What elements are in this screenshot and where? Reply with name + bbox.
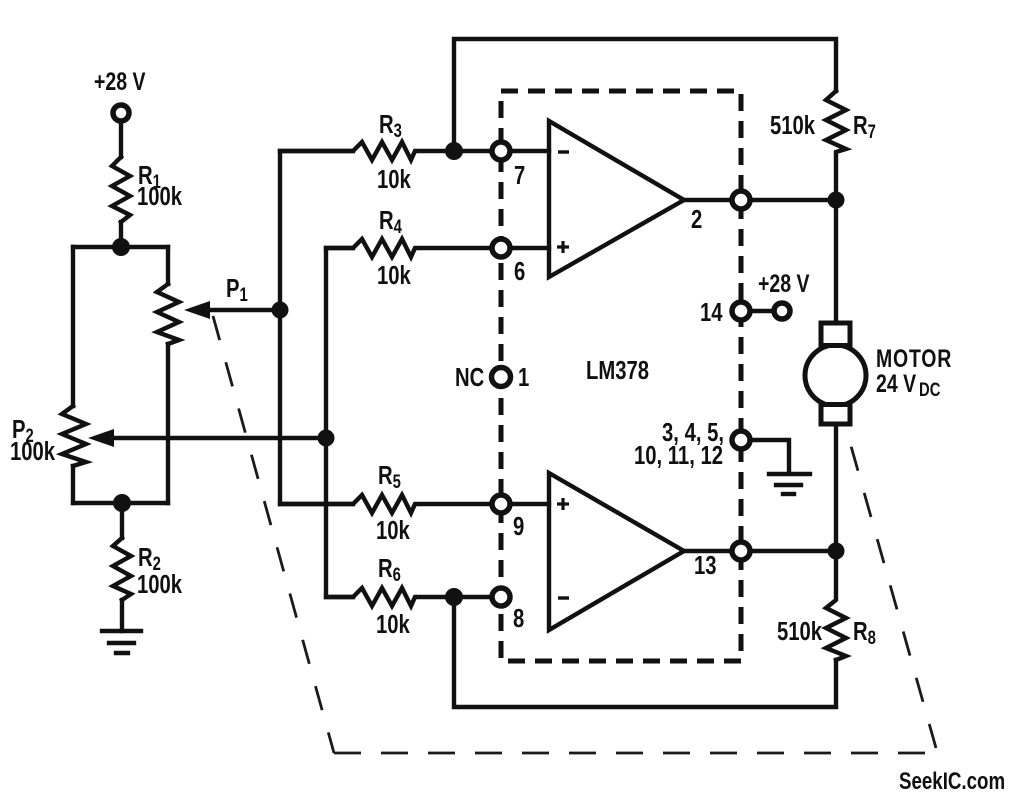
node junction P2 wiper to bus bbox=[318, 430, 335, 447]
wire pot box left upper bbox=[71, 247, 75, 406]
pin 6 bbox=[492, 239, 525, 286]
pin 13 bbox=[694, 542, 750, 580]
svg-text:MOTOR: MOTOR bbox=[876, 345, 952, 373]
wire op-amp2 output to node bbox=[684, 549, 836, 553]
wire node to motor bbox=[834, 200, 838, 323]
resistor R7 510k bbox=[770, 91, 876, 200]
wire motor to node B bbox=[834, 424, 838, 551]
wire left vertical bus R3 to R5 bbox=[280, 151, 353, 504]
svg-text:DC: DC bbox=[919, 379, 940, 400]
wire bottom feedback loop from node B to R8 bbox=[454, 597, 836, 707]
wire pot box bottom bbox=[73, 501, 168, 505]
svg-text:+28 V: +28 V bbox=[758, 270, 810, 298]
pin 2 bbox=[691, 191, 750, 234]
dashed mechanical link up to motor bbox=[851, 446, 936, 748]
resistor R8 510k bbox=[777, 551, 876, 660]
svg-text:510k: 510k bbox=[777, 617, 822, 646]
pin 3,4,5,10,11,12 to ground bbox=[634, 418, 789, 473]
svg-text:+28 V: +28 V bbox=[94, 68, 146, 96]
svg-text:100k: 100k bbox=[137, 182, 182, 211]
wire R1 to pot box bbox=[119, 222, 123, 247]
supply terminal +28V top left bbox=[94, 68, 146, 121]
svg-text:13: 13 bbox=[694, 551, 717, 580]
wire pin6 to op-amp bbox=[510, 246, 549, 250]
pin 14 with +28V terminal bbox=[700, 270, 810, 327]
svg-text:10, 11, 12: 10, 11, 12 bbox=[634, 441, 723, 470]
svg-text:24 V: 24 V bbox=[876, 370, 916, 398]
ground symbol right bbox=[769, 474, 810, 494]
svg-text:1: 1 bbox=[518, 363, 529, 392]
potentiometer P2 100k element bbox=[10, 406, 86, 466]
svg-text:NC: NC bbox=[455, 363, 484, 392]
resistor R1 100k bbox=[112, 157, 182, 222]
wire node to pin7 and op-amp bbox=[454, 149, 549, 153]
wire box bottom to R2 bbox=[120, 503, 124, 538]
node junction R6 / feedback bbox=[445, 588, 463, 606]
node junction R1 / pot box bbox=[112, 238, 130, 256]
pin 7 bbox=[492, 142, 525, 190]
potentiometer P1 element bbox=[157, 274, 248, 344]
svg-text:2: 2 bbox=[691, 205, 702, 234]
resistor R6 10k bbox=[326, 554, 492, 639]
wire pot box left lower bbox=[71, 466, 75, 503]
motor M 24VDC bbox=[805, 323, 952, 424]
pin 1 NC bbox=[455, 363, 529, 392]
node junction output1 / R7 / motor bbox=[828, 192, 845, 209]
svg-text:9: 9 bbox=[513, 512, 524, 541]
resistor R5 10k bbox=[280, 461, 492, 545]
svg-text:10k: 10k bbox=[376, 610, 410, 639]
pin 8 bbox=[492, 588, 524, 633]
dashed mechanical link bottom horizontal bbox=[334, 752, 932, 755]
watermark SeekIC.com bbox=[899, 768, 1005, 795]
pin 9 bbox=[492, 495, 524, 541]
wire terminal to R1 bbox=[119, 121, 123, 157]
resistor R4 10k bbox=[326, 206, 492, 290]
node junction P1 wiper to bus bbox=[272, 302, 289, 319]
node junction pot box bottom / R2 bbox=[113, 494, 131, 512]
svg-text:14: 14 bbox=[700, 298, 723, 327]
svg-text:10k: 10k bbox=[377, 261, 411, 290]
wiper arrow P2 bbox=[88, 429, 326, 447]
svg-text:510k: 510k bbox=[770, 111, 815, 140]
wire op-amp1 output to node bbox=[684, 198, 836, 202]
svg-text:6: 6 bbox=[514, 257, 525, 286]
svg-text:LM378: LM378 bbox=[586, 356, 649, 385]
op-amp U2 bottom amplifier bbox=[549, 473, 684, 630]
svg-text:SeekIC.com: SeekIC.com bbox=[899, 768, 1005, 795]
wire second vertical bus R4 to R6 bbox=[326, 248, 353, 597]
node junction R3 / feedback bbox=[445, 142, 463, 160]
resistor R3 10k bbox=[280, 110, 445, 194]
wire pot box top bbox=[73, 245, 168, 249]
svg-text:100k: 100k bbox=[137, 570, 182, 599]
node junction output2 / R8 / motor bbox=[828, 543, 845, 560]
ground symbol left bbox=[102, 631, 141, 653]
IC LM378 dashed package outline bbox=[501, 91, 741, 661]
svg-text:7: 7 bbox=[514, 161, 525, 190]
svg-text:100k: 100k bbox=[10, 437, 55, 466]
wire pin9 to op-amp bbox=[510, 502, 549, 506]
wiper arrow P1 bbox=[184, 301, 280, 319]
svg-text:10k: 10k bbox=[377, 165, 411, 194]
svg-text:8: 8 bbox=[513, 604, 524, 633]
op-amp U1 top amplifier bbox=[549, 121, 684, 277]
wire R2 to ground bbox=[120, 600, 124, 631]
wire pot box right lower bbox=[166, 344, 170, 503]
svg-text:10k: 10k bbox=[376, 516, 410, 545]
resistor R2 100k bbox=[113, 538, 182, 600]
wire pot box right upper bbox=[166, 247, 170, 284]
wire top feedback loop from node A up over to R7 bbox=[454, 39, 836, 151]
dashed mechanical link from P1 down bbox=[213, 316, 334, 753]
